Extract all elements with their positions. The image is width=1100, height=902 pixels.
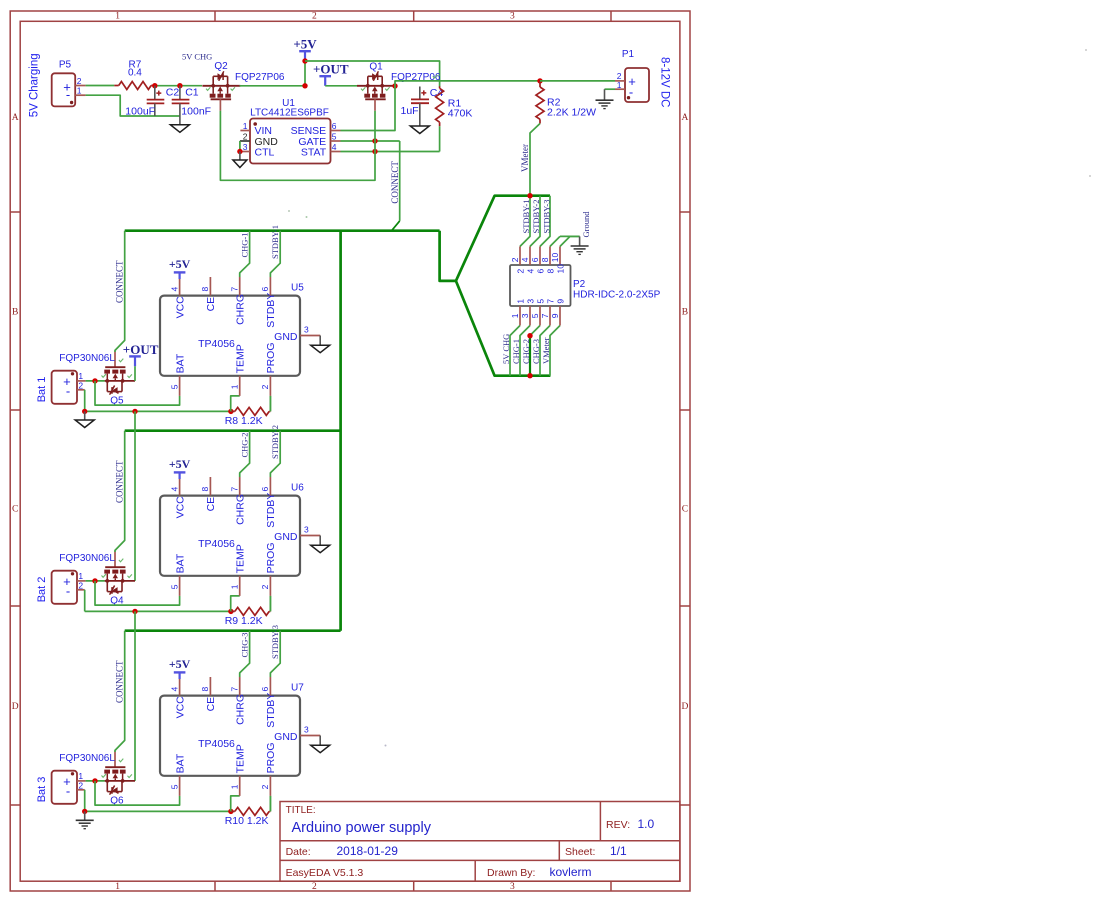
svg-text:PROG: PROG [265, 342, 277, 373]
svg-text:CHG-1: CHG-1 [239, 232, 249, 257]
connector P1 [615, 49, 649, 102]
svg-text:Q2: Q2 [214, 61, 228, 72]
wire Bat1.1 to Q5 source [86, 380, 105, 382]
svg-text:Ground: Ground [581, 211, 591, 238]
svg-text:STDBY: STDBY [265, 693, 277, 728]
bus CONNECT fan to P2 [440, 231, 456, 281]
svg-text:10: 10 [556, 264, 566, 274]
svg-text:8: 8 [200, 687, 210, 692]
wire Bat2.1 to Q4 source [86, 580, 105, 582]
svg-text:CHG-1: CHG-1 [511, 339, 521, 364]
svg-text:HDR-IDC-2.0-2X5P: HDR-IDC-2.0-2X5P [573, 290, 661, 301]
junction Q1 drain [392, 83, 397, 88]
junction C2 node [152, 83, 157, 88]
wire Q1 drain to P1/R2 [395, 81, 540, 86]
wire Bat3 minus rail [85, 810, 231, 812]
IC U5 TP4056 [160, 277, 320, 396]
svg-text:1: 1 [230, 584, 240, 589]
wire VMeter to P2.9 [550, 326, 560, 376]
pin 6 STDBY [269, 677, 271, 696]
resistor R9 1.2K [225, 607, 271, 626]
pin 2 [519, 246, 521, 265]
svg-text:7: 7 [230, 287, 240, 292]
svg-text:+5V: +5V [169, 257, 191, 271]
wire PROG to R8 [269, 396, 271, 412]
svg-text:A: A [12, 113, 19, 123]
svg-text:Q1: Q1 [369, 61, 383, 72]
svg-text:Bat 2: Bat 2 [36, 577, 48, 603]
svg-text:STDBY-1: STDBY-1 [521, 199, 531, 233]
pin 4 STAT [331, 151, 341, 153]
wire R2 bottom VMeter [530, 124, 540, 196]
battery connector Bat 3 [52, 771, 86, 804]
svg-text:B: B [12, 307, 18, 317]
power +OUT main [319, 75, 331, 77]
wire CONNECT drop from GATE [399, 141, 401, 221]
svg-text:P1: P1 [622, 49, 635, 60]
wire P1.1 to ground [605, 88, 616, 90]
resistor R7 [114, 59, 155, 89]
svg-text:Sheet:: Sheet: [565, 846, 595, 858]
capacitor C1 100nF [172, 86, 211, 125]
junction R9 left [228, 609, 233, 614]
wire 5V CHG to P2.1 [510, 326, 520, 376]
pin 1 [519, 306, 521, 326]
junction Bat1 minus mid [132, 409, 137, 414]
svg-text:1: 1 [617, 80, 622, 90]
transistor Q6 FQP30N06L [59, 751, 135, 806]
pin 5 GATE [331, 140, 341, 142]
wire STAT to R1 [341, 151, 440, 153]
wire Bat1 minus rail [85, 410, 231, 412]
svg-text:1: 1 [77, 86, 82, 96]
svg-text:1: 1 [230, 784, 240, 789]
pin 8 [549, 246, 551, 265]
svg-text:FQP30N06L: FQP30N06L [59, 353, 115, 364]
svg-text:C2: C2 [166, 87, 180, 99]
transistor Q4 FQP30N06L [59, 551, 135, 606]
pin 5 BAT [179, 376, 181, 396]
svg-text:+OUT: +OUT [123, 342, 159, 357]
pin 3 GND [300, 335, 320, 337]
svg-text:C1: C1 [185, 87, 199, 99]
pin 7 CHRG [239, 477, 241, 496]
svg-text:6: 6 [260, 287, 270, 292]
wire TEMP to R8 [231, 396, 240, 412]
svg-text:3: 3 [510, 882, 515, 892]
pin 4 VCC [179, 677, 181, 696]
junction Bat2 minus mid [132, 609, 137, 614]
svg-text:2.2K 1/2W: 2.2K 1/2W [547, 106, 596, 118]
ground at Bat3 [82, 809, 87, 814]
svg-text:3: 3 [304, 524, 309, 534]
svg-text:7: 7 [230, 487, 240, 492]
capacitor C2 100uF [125, 86, 179, 118]
svg-text:6: 6 [332, 121, 337, 131]
transistor Q2 FQP27P06 [202, 61, 285, 111]
svg-text:PROG: PROG [265, 542, 277, 573]
svg-text:STDBY-2: STDBY-2 [270, 425, 280, 459]
svg-text:470K: 470K [448, 108, 473, 120]
svg-text:CE: CE [205, 697, 217, 712]
wire +OUT to Q1 source [325, 85, 357, 87]
wire CONNECT drop to Q6 gate [115, 631, 125, 752]
power +OUT at Q5 [129, 355, 141, 357]
svg-text:5: 5 [169, 584, 179, 589]
IC U6 TP4056 [160, 477, 320, 596]
svg-text:2: 2 [260, 784, 270, 789]
svg-text:R10 1.2K: R10 1.2K [225, 815, 269, 827]
svg-text:GND: GND [274, 731, 298, 743]
pin 4 VCC [179, 277, 181, 296]
pin 3 GND [300, 535, 320, 537]
svg-text:4: 4 [520, 257, 530, 262]
svg-text:8-12V DC: 8-12V DC [659, 57, 671, 108]
svg-text:CHG-3: CHG-3 [239, 632, 249, 657]
svg-text:1/1: 1/1 [610, 844, 627, 858]
svg-text:2: 2 [78, 580, 83, 590]
svg-text:10: 10 [550, 252, 560, 262]
svg-text:TP4056: TP4056 [198, 338, 235, 350]
ground at Bat1 [82, 409, 87, 414]
connector P2 HDR-IDC-2.0-2X5P [510, 265, 661, 306]
ground at U7 [319, 736, 321, 746]
svg-text:7: 7 [540, 313, 550, 318]
svg-text:-: - [66, 384, 70, 399]
svg-text:CONNECT: CONNECT [390, 161, 400, 204]
svg-text:STAT: STAT [301, 146, 327, 158]
junction +5V upper [302, 58, 307, 63]
svg-text:1: 1 [243, 121, 248, 131]
svg-text:CONNECT: CONNECT [115, 660, 125, 703]
svg-text:2: 2 [260, 384, 270, 389]
wire CHG-3 to P2.7 [540, 326, 550, 376]
pin 5 BAT [179, 576, 181, 596]
wire STDBY to STDBY-3 [270, 631, 280, 677]
power +5V U7 [174, 671, 186, 673]
wire Bat3 plus to BAT pin [95, 781, 180, 805]
svg-text:CTL: CTL [255, 146, 275, 158]
svg-text:+5V: +5V [293, 37, 317, 52]
svg-text:+OUT: +OUT [313, 62, 349, 77]
svg-text:CE: CE [205, 497, 217, 512]
svg-text:P5: P5 [59, 59, 72, 70]
svg-text:kovlerm: kovlerm [550, 865, 592, 879]
svg-text:BAT: BAT [174, 553, 186, 573]
svg-text:3: 3 [304, 324, 309, 334]
wire U1 GND to CTL [239, 141, 241, 152]
junction R2 top [537, 78, 542, 83]
svg-text:+5V: +5V [169, 657, 191, 671]
wire STDBY-3 to P2.6 [540, 196, 550, 247]
svg-text:9: 9 [556, 299, 566, 304]
pin 2 PROG [269, 776, 271, 796]
resistor R10 1.2K [225, 807, 271, 826]
svg-text:CHRG: CHRG [234, 494, 246, 525]
bus CONNECT horizontal 1 [125, 229, 440, 232]
svg-text:VCC: VCC [174, 296, 186, 319]
svg-text:4: 4 [332, 142, 337, 152]
svg-text:FQP30N06L: FQP30N06L [59, 753, 115, 764]
svg-text:CHRG: CHRG [234, 294, 246, 325]
bus CONNECT horizontal 2 [125, 429, 341, 432]
svg-text:5V Charging: 5V Charging [29, 53, 41, 117]
svg-text:1: 1 [115, 882, 120, 892]
IC U7 TP4056 [160, 677, 320, 796]
svg-text:BAT: BAT [174, 353, 186, 373]
svg-text:STDBY-3: STDBY-3 [270, 625, 280, 659]
svg-text:5V CHG: 5V CHG [501, 334, 511, 364]
wire Bat2 plus to BAT pin [95, 581, 180, 605]
svg-text:FQP30N06L: FQP30N06L [59, 553, 115, 564]
svg-text:Arduino power supply: Arduino power supply [292, 820, 432, 836]
svg-text:2: 2 [312, 882, 317, 892]
svg-text:-: - [66, 87, 70, 102]
svg-text:9: 9 [550, 313, 560, 318]
pin 8 CE [209, 477, 211, 496]
pin 2 GND [240, 140, 250, 142]
svg-text:1: 1 [115, 12, 120, 22]
svg-text:PROG: PROG [265, 742, 277, 773]
wire STDBY-1 to P2.2 [520, 196, 530, 247]
svg-text:U5: U5 [291, 283, 304, 294]
svg-text:STDBY-2: STDBY-2 [531, 199, 541, 233]
wire TEMP to R10 [231, 796, 240, 812]
svg-text:CHG-2: CHG-2 [521, 339, 531, 364]
svg-text:5: 5 [169, 384, 179, 389]
wire Bat2 minus rail [85, 610, 231, 612]
svg-text:LTC4412ES6PBF: LTC4412ES6PBF [250, 108, 329, 119]
svg-text:STDBY: STDBY [265, 293, 277, 328]
svg-text:R8 1.2K: R8 1.2K [225, 415, 263, 427]
wire STDBY to STDBY-1 [270, 231, 280, 277]
junction R10 left [228, 809, 233, 814]
svg-text:VMeter: VMeter [520, 144, 530, 172]
wire Bat2 minus to Q6 drain [134, 611, 136, 781]
junction VMeter bus [527, 193, 532, 198]
svg-text:5: 5 [536, 299, 546, 304]
wire P2.8 to ground [550, 236, 560, 246]
wire PROG to R9 [269, 596, 271, 612]
svg-text:4: 4 [169, 487, 179, 492]
svg-text:2: 2 [312, 12, 317, 22]
svg-text:U7: U7 [291, 683, 304, 694]
ground at U1 [239, 152, 241, 161]
svg-text:STDBY: STDBY [265, 493, 277, 528]
junction R8 left [228, 409, 233, 414]
svg-text:6: 6 [260, 487, 270, 492]
svg-text:Bat 1: Bat 1 [36, 377, 48, 403]
svg-text:2: 2 [78, 780, 83, 790]
pin 2 PROG [269, 576, 271, 596]
svg-text:1: 1 [516, 299, 526, 304]
wire CHG-1 to P2.3 [520, 326, 530, 376]
svg-text:GND: GND [274, 531, 298, 543]
resistor R1 470K [436, 86, 473, 126]
junction C1 node [177, 83, 182, 88]
junction +5V lower [302, 83, 307, 88]
svg-text:1: 1 [230, 384, 240, 389]
svg-text:1uF: 1uF [401, 105, 419, 117]
svg-text:0.4: 0.4 [128, 68, 142, 79]
wire Q2 drain to +5V node [240, 85, 306, 87]
wire P5.2 to R7 [86, 85, 115, 87]
wire R2 to P1.2 [540, 80, 615, 82]
svg-text:C: C [12, 504, 18, 514]
svg-text:CONNECT: CONNECT [115, 260, 125, 303]
wire CONNECT drop to Q4 gate [115, 431, 125, 552]
ground at U6 [319, 536, 321, 546]
svg-text:VCC: VCC [174, 496, 186, 519]
wire TEMP to R9 [231, 596, 240, 612]
svg-text:CHRG: CHRG [234, 694, 246, 725]
svg-text:2: 2 [78, 380, 83, 390]
svg-text:GND: GND [274, 331, 298, 343]
junction STAT [372, 149, 377, 154]
wire CHRG to CHG-2 [240, 431, 250, 477]
svg-text:8: 8 [200, 487, 210, 492]
svg-text:STDBY-1: STDBY-1 [270, 225, 280, 259]
svg-text:D: D [12, 702, 19, 712]
bus CONNECT vertical mid [339, 231, 342, 631]
svg-text:1: 1 [510, 313, 520, 318]
wire R9 to PROG [269, 596, 271, 612]
resistor R2 2.2K 1/2W [536, 81, 596, 124]
pin 6 STDBY [269, 277, 271, 296]
pin 3 [529, 306, 531, 326]
junction Bat1 plus [92, 378, 97, 383]
transistor Q1 FQP27P06 [357, 61, 441, 110]
svg-text:TP4056: TP4056 [198, 738, 235, 750]
svg-text:A: A [681, 113, 688, 123]
connector P5 [52, 59, 86, 106]
svg-text:STDBY-3: STDBY-3 [541, 199, 551, 233]
wire STDBY to STDBY-2 [270, 431, 280, 477]
pin 10 [559, 246, 561, 265]
power +5V U5 [174, 271, 186, 273]
svg-text:VMeter: VMeter [541, 337, 551, 364]
wire R8 to PROG [269, 396, 271, 412]
wire STDBY-2 to P2.4 [530, 196, 540, 247]
pin 6 SENSE [331, 130, 341, 132]
svg-text:6: 6 [530, 257, 540, 262]
svg-text:-: - [66, 784, 70, 799]
pin 1 TEMP [239, 376, 241, 396]
transistor Q5 FQP30N06L [59, 351, 135, 406]
wire CHRG to CHG-3 [240, 631, 250, 677]
svg-text:TEMP: TEMP [234, 344, 246, 373]
svg-text:2018-01-29: 2018-01-29 [337, 844, 399, 858]
wire Bat1.2 down [84, 390, 86, 412]
ground below C4 [410, 126, 429, 134]
svg-text:5: 5 [169, 784, 179, 789]
svg-text:5V CHG: 5V CHG [182, 52, 212, 62]
svg-text:8: 8 [540, 257, 550, 262]
battery connector Bat 2 [52, 571, 86, 604]
power +5V main [299, 50, 311, 52]
svg-text:5: 5 [530, 313, 540, 318]
junction Bat2 plus [92, 578, 97, 583]
svg-text:7: 7 [546, 299, 556, 304]
svg-text:VCC: VCC [174, 696, 186, 719]
pin 8 CE [209, 677, 211, 696]
wire CONNECT drop to Q5 gate [115, 231, 125, 352]
svg-text:3: 3 [520, 313, 530, 318]
svg-text:Bat 3: Bat 3 [36, 777, 48, 803]
svg-text:EasyEDA V5.1.3: EasyEDA V5.1.3 [286, 867, 364, 879]
svg-text:B: B [682, 307, 688, 317]
pin 5 [539, 306, 541, 326]
svg-text:5: 5 [332, 131, 337, 141]
pin 6 STDBY [269, 477, 271, 496]
wire Q5 drain to +OUT [134, 366, 136, 381]
svg-text:3: 3 [510, 12, 515, 22]
svg-text:3: 3 [304, 724, 309, 734]
svg-text:Date:: Date: [286, 846, 311, 858]
svg-text:FQP27P06: FQP27P06 [235, 72, 285, 83]
svg-text:C: C [682, 504, 688, 514]
power +5V U6 [174, 471, 186, 473]
pin 4 [529, 246, 531, 265]
svg-text:REV:: REV: [606, 819, 630, 831]
svg-text:BAT: BAT [174, 753, 186, 773]
wire CHG-2 to P2.5 [530, 326, 540, 336]
svg-text:TITLE:: TITLE: [286, 805, 316, 816]
ground at P1 [604, 89, 606, 100]
wire P5.1 ground rail [86, 95, 180, 116]
wire PROG to R10 [269, 796, 271, 812]
svg-text:6: 6 [260, 687, 270, 692]
wire Bat1 minus to Q4 drain [134, 411, 136, 581]
svg-text:CE: CE [205, 297, 217, 312]
svg-text:4: 4 [526, 269, 536, 274]
IC U1 LTC4412ES6PBF [240, 98, 341, 164]
svg-text:8: 8 [200, 287, 210, 292]
pin 6 [539, 246, 541, 265]
svg-text:2: 2 [516, 269, 526, 274]
svg-text:TEMP: TEMP [234, 544, 246, 573]
svg-text:2: 2 [510, 257, 520, 262]
wire GATE [341, 140, 400, 142]
pin 4 VCC [179, 477, 181, 496]
junction CHG-2 top [527, 333, 532, 338]
ground below C1 [170, 125, 189, 133]
junction Bat3 plus [92, 778, 97, 783]
wire R1 bottom to STAT [439, 126, 441, 151]
svg-text:P2: P2 [573, 279, 586, 290]
svg-text:+5V: +5V [169, 457, 191, 471]
svg-text:-: - [66, 584, 70, 599]
svg-text:3: 3 [243, 142, 248, 152]
pin 1 TEMP [239, 576, 241, 596]
svg-text:4: 4 [169, 687, 179, 692]
junction GATE / Q1 gate [372, 138, 377, 143]
pin 2 PROG [269, 376, 271, 396]
svg-text:R9 1.2K: R9 1.2K [225, 615, 263, 627]
junction CTL [237, 149, 242, 154]
pin 1 TEMP [239, 776, 241, 796]
svg-text:3: 3 [526, 299, 536, 304]
svg-text:D: D [681, 702, 688, 712]
wire +5V stem [304, 59, 306, 86]
wire Bat3.2 down [84, 790, 86, 812]
wire Q1 gate / Q2 gate link [374, 111, 376, 141]
svg-text:U6: U6 [291, 483, 304, 494]
ground at P2 [579, 236, 581, 245]
svg-text:8: 8 [546, 269, 556, 274]
pin 7 CHRG [239, 277, 241, 296]
wire CHRG to CHG-1 [240, 231, 250, 277]
